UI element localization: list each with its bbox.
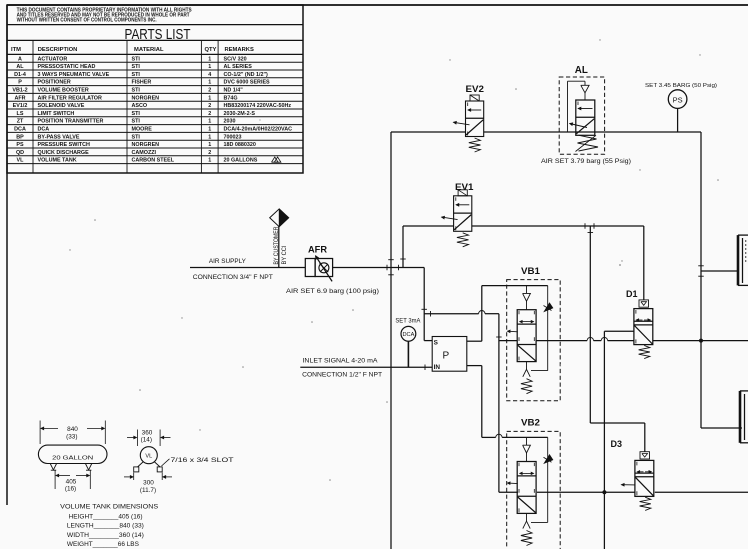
svg-text:DVC 6000 SERIES: DVC 6000 SERIES (224, 80, 271, 86)
svg-text:ND 1/4": ND 1/4" (224, 88, 244, 94)
wire supply down to positioner S (421, 268, 432, 341)
svg-text:WIDTH________360 (14): WIDTH________360 (14) (67, 532, 144, 539)
svg-text:BY-PASS VALVE: BY-PASS VALVE (38, 134, 80, 140)
svg-text:VL: VL (17, 158, 25, 164)
wire VB1 pilot from positioner (482, 285, 548, 287)
svg-text:FISHER: FISHER (132, 80, 152, 86)
sheet left border line (6, 5, 8, 505)
svg-text:STI: STI (132, 111, 141, 117)
svg-text:3 WAYS PNEUMATIC VALVE: 3 WAYS PNEUMATIC VALVE (38, 72, 110, 78)
svg-text:(14): (14) (141, 437, 152, 444)
svg-text:1: 1 (208, 158, 211, 164)
svg-text:VOLUME TANK DIMENSIONS: VOLUME TANK DIMENSIONS (60, 503, 158, 510)
svg-text:POSITION TRANSMITTER: POSITION TRANSMITTER (38, 119, 104, 125)
svg-text:BY CUSTOMER: BY CUSTOMER (273, 226, 280, 264)
wire VB2 pilot segment (527, 436, 548, 438)
svg-text:1: 1 (208, 142, 211, 148)
svg-text:AIR SET 6.9 barg (100 psig): AIR SET 6.9 barg (100 psig) (286, 288, 379, 295)
svg-text:HB83200174 220VAC-50Hz: HB83200174 220VAC-50Hz (224, 103, 292, 109)
svg-text:PS: PS (16, 142, 24, 148)
wire right bus vertical (700, 132, 702, 428)
svg-text:20 GALLONS: 20 GALLONS (224, 158, 258, 164)
proprietary notice text (17, 8, 193, 24)
svg-text:2030: 2030 (224, 119, 236, 125)
svg-text:B74G: B74G (224, 95, 238, 101)
tank length dimension 840 (33) (40, 421, 105, 445)
table header row (7, 47, 303, 54)
svg-text:AL SERIES: AL SERIES (224, 64, 253, 70)
volume booster VB1 valve (508, 286, 553, 394)
svg-text:ITM: ITM (11, 47, 21, 53)
svg-text:P: P (443, 351, 450, 362)
positioner P box (432, 337, 467, 372)
parts list table outer box (7, 5, 303, 173)
svg-text:D3: D3 (611, 439, 623, 450)
svg-text:A: A (18, 56, 22, 62)
svg-text:20 GALLON: 20 GALLON (52, 456, 93, 462)
svg-text:SC/V 320: SC/V 320 (224, 56, 247, 62)
volume tank legs (50, 464, 92, 471)
svg-text:D1-4: D1-4 (14, 72, 26, 78)
svg-text:1: 1 (208, 56, 211, 62)
svg-text:REMARKS: REMARKS (225, 47, 254, 53)
table item rows (7, 56, 303, 163)
sheet top border line (7, 4, 748, 6)
wire left air bus vertical (390, 132, 392, 549)
svg-text:INLET SIGNAL 4-20 mA: INLET SIGNAL 4-20 mA (303, 358, 379, 365)
wire positioner top output to VB1 pilot (467, 286, 482, 342)
pneumatic valve D3 body (611, 439, 654, 511)
wire EV1 left (403, 225, 454, 227)
svg-text:ACTUATOR: ACTUATOR (38, 56, 68, 62)
svg-text:SET 3.45 BARG (50 Psig): SET 3.45 BARG (50 Psig) (645, 83, 717, 89)
volume tank end view circle VL (134, 447, 163, 472)
svg-text:18D 0880320: 18D 0880320 (224, 142, 256, 148)
svg-text:STI: STI (132, 134, 141, 140)
svg-text:2030-2M-2-S: 2030-2M-2-S (224, 111, 256, 117)
svg-text:AFR: AFR (14, 95, 25, 101)
svg-text:STI: STI (132, 119, 141, 125)
svg-text:1: 1 (208, 80, 211, 86)
wire booster VB2 supply stub (499, 491, 518, 493)
wire D3 output to right edge (655, 491, 748, 493)
limit switch box lower (740, 391, 748, 443)
svg-text:P: P (18, 80, 22, 86)
svg-text:1: 1 (208, 119, 211, 125)
svg-text:2: 2 (208, 103, 211, 109)
svg-text:PRESSOSTATIC HEAD: PRESSOSTATIC HEAD (38, 64, 96, 70)
svg-text:DCA: DCA (38, 127, 50, 133)
svg-text:STI: STI (132, 56, 141, 62)
svg-text:405: 405 (66, 478, 77, 485)
svg-text:2: 2 (208, 150, 211, 156)
air filter regulator AFR (305, 256, 332, 282)
volume booster VB2 valve (508, 437, 553, 545)
solenoid valve EV2 (454, 84, 485, 152)
svg-text:S: S (434, 339, 439, 346)
svg-text:CARBON STEEL: CARBON STEEL (132, 158, 175, 164)
svg-text:2: 2 (208, 88, 211, 94)
svg-text:PARTS LIST: PARTS LIST (125, 26, 191, 43)
svg-text:2: 2 (208, 111, 211, 117)
wire AL to PS junction to right corner (484, 131, 701, 133)
wire air supply horizontal (190, 267, 305, 269)
svg-text:1: 1 (208, 64, 211, 70)
svg-text:EV2: EV2 (466, 84, 485, 94)
wire positioner bottom output to VB2 pilot (467, 366, 527, 438)
svg-text:MATERIAL: MATERIAL (134, 47, 164, 53)
svg-text:DCA: DCA (402, 332, 414, 338)
svg-text:VOLUME BOOSTER: VOLUME BOOSTER (38, 88, 89, 94)
svg-text:VOLUME TANK: VOLUME TANK (38, 158, 77, 164)
svg-text:BP: BP (16, 134, 24, 140)
svg-text:(33): (33) (66, 434, 77, 441)
svg-text:CO-1/2" (ND 1/2"): CO-1/2" (ND 1/2") (224, 72, 269, 78)
wire supply branch to boosters (424, 311, 501, 493)
svg-text:SET 3mA: SET 3mA (395, 317, 421, 324)
svg-text:AL: AL (575, 64, 589, 76)
pneumatic valve D1 body (626, 289, 653, 358)
svg-text:PS: PS (673, 96, 683, 105)
wire VB2 output rail to D3 (537, 490, 635, 494)
svg-text:POSITIONER: POSITIONER (38, 80, 71, 86)
wire D1 input from D3 rail (604, 331, 634, 549)
svg-text:1: 1 (208, 127, 211, 133)
svg-text:CAMOZZI: CAMOZZI (132, 150, 157, 156)
svg-text:7/16 x 3/4 SLOT: 7/16 x 3/4 SLOT (171, 457, 234, 464)
tank leg span dimension 405 (16) (55, 471, 90, 493)
svg-text:VB2: VB2 (521, 418, 540, 428)
svg-text:LIMIT SWITCH: LIMIT SWITCH (38, 111, 75, 117)
wire D1 output to right bus and actuator (653, 339, 748, 343)
svg-text:360: 360 (142, 429, 153, 436)
wire upper limit switch box feed (698, 266, 738, 276)
svg-text:300: 300 (143, 480, 154, 487)
wire right bus into lower limit switch box (701, 427, 742, 429)
scan speckle noise (decorative) (69, 39, 719, 481)
svg-text:AFR: AFR (308, 245, 327, 256)
svg-text:LENGTH_______840 (33): LENGTH_______840 (33) (67, 522, 144, 529)
svg-text:1: 1 (208, 95, 211, 101)
svg-text:WITHOUT WRITTEN CONSENT OF CON: WITHOUT WRITTEN CONSENT OF CONTROL COMPO… (17, 18, 158, 24)
wire VB1 output rail to D1 (536, 337, 634, 340)
svg-text:840: 840 (67, 426, 78, 433)
svg-text:WEIGHT_______66 LBS: WEIGHT_______66 LBS (67, 541, 139, 548)
solenoid valve EV1 (442, 182, 474, 247)
wire inlet signal to positioner IN (300, 364, 432, 370)
svg-text:LS: LS (17, 111, 24, 117)
svg-text:1: 1 (208, 134, 211, 140)
wire pilot feed D1 (643, 226, 645, 300)
svg-text:700023: 700023 (224, 134, 242, 140)
label 7/16 x 3/4 SLOT with leader (162, 457, 234, 466)
scope flag diamond BY CUSTOMER / BY CCI (270, 209, 289, 268)
svg-text:AIR SET 3.79 barg (55 Psig): AIR SET 3.79 barg (55 Psig) (541, 159, 631, 165)
svg-text:STI: STI (132, 64, 141, 70)
limit switch box upper (738, 235, 748, 285)
wire DCA drop to signal (407, 341, 409, 367)
end view base dimension 300 (11.7) (124, 473, 172, 495)
pressostatic head AL valve (568, 81, 599, 151)
table column dividers (33, 40, 218, 173)
end view width dimension 360 (14) (127, 429, 171, 446)
svg-text:VB1-2: VB1-2 (12, 88, 27, 94)
PARTS LIST title row (7, 26, 303, 43)
svg-text:CONNECTION 3/4" F NPT: CONNECTION 3/4" F NPT (193, 274, 273, 281)
svg-text:DCA: DCA (14, 127, 26, 133)
wire top loop horizontal to EV2 AL PS (391, 131, 466, 133)
junction ticks on left bus at air wire (388, 260, 394, 275)
svg-text:VB1: VB1 (521, 266, 540, 276)
volume tank dimensions text block (60, 503, 158, 548)
svg-text:QTY: QTY (205, 47, 217, 53)
svg-text:DESCRIPTION: DESCRIPTION (38, 47, 78, 53)
svg-text:AIR SUPPLY: AIR SUPPLY (209, 258, 247, 265)
warning triangles in VL row (272, 157, 281, 162)
svg-text:EV1/2: EV1/2 (13, 103, 28, 109)
svg-text:PRESSURE SWITCH: PRESSURE SWITCH (38, 142, 91, 148)
svg-text:ZT: ZT (17, 119, 24, 125)
svg-text:D1: D1 (626, 289, 638, 300)
svg-text:4: 4 (208, 72, 211, 78)
wire pilot feed D3 via left descent (588, 226, 645, 452)
pneumatic valve D1 pilot box (639, 300, 649, 307)
svg-text:DCA/4-20mA/0H02/220VAC: DCA/4-20mA/0H02/220VAC (224, 127, 293, 133)
svg-text:QUICK DISCHARGE: QUICK DISCHARGE (38, 150, 90, 156)
svg-text:STI: STI (132, 88, 141, 94)
svg-text:IN: IN (434, 364, 441, 371)
svg-text:NORGREN: NORGREN (132, 95, 160, 101)
svg-text:AIR FILTER REGULATOR: AIR FILTER REGULATOR (38, 95, 102, 101)
volume booster VB1 dashed enclosure (507, 280, 561, 401)
svg-text:QD: QD (16, 150, 24, 156)
proprietary notice box (7, 24, 303, 26)
svg-text:STI: STI (132, 72, 141, 78)
svg-text:(16): (16) (65, 486, 76, 493)
svg-text:BY CCI: BY CCI (281, 245, 288, 264)
svg-text:(11.7): (11.7) (140, 487, 156, 494)
svg-text:VL: VL (145, 454, 152, 460)
wire EV1 feed vertical (400, 226, 406, 268)
wire AFR to supply corner (333, 265, 425, 271)
volume tank side view capsule (38, 445, 107, 463)
wire booster VB1 supply stub (499, 340, 517, 342)
svg-text:MOORE: MOORE (132, 127, 153, 133)
svg-text:AL: AL (16, 64, 24, 70)
svg-text:HEIGHT_______405 (16): HEIGHT_______405 (16) (69, 513, 143, 520)
pneumatic valve D3 pilot box (640, 452, 650, 459)
svg-text:CONNECTION 1/2" F NPT: CONNECTION 1/2" F NPT (302, 371, 382, 378)
wire EV1 output to pilots (472, 223, 644, 229)
svg-text:NORGREN: NORGREN (132, 142, 160, 148)
DCA converter circle (401, 326, 416, 341)
pressostatic head AL dashed enclosure (559, 77, 604, 154)
svg-text:SOLENOID VALVE: SOLENOID VALVE (38, 103, 85, 109)
volume booster VB2 dashed enclosure (507, 431, 561, 549)
pressure switch PS (668, 90, 687, 132)
svg-text:ASCO: ASCO (132, 103, 148, 109)
